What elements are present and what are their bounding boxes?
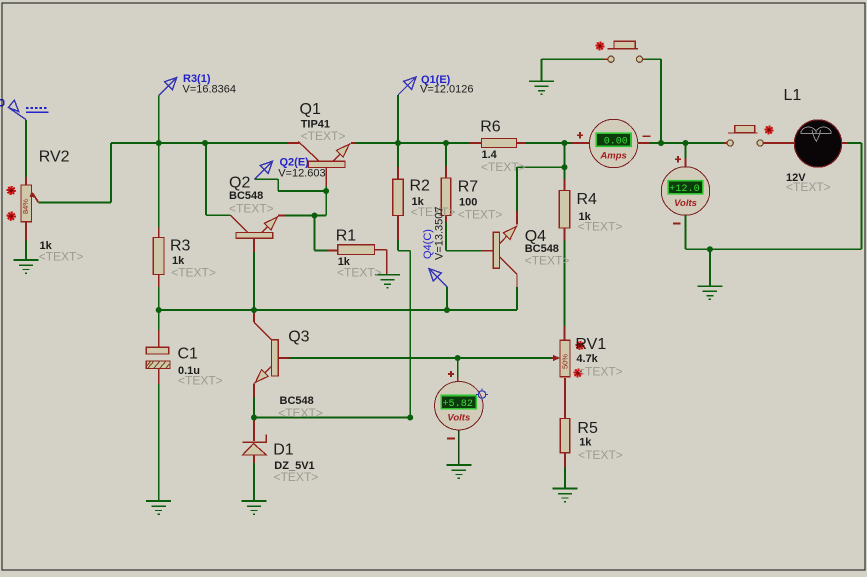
svg-text:Q4(C): Q4(C) xyxy=(422,229,434,259)
svg-text:R4: R4 xyxy=(577,191,598,208)
svg-text:C1: C1 xyxy=(178,346,199,363)
svg-text:<TEXT>: <TEXT> xyxy=(481,160,526,174)
svg-text:+5.82: +5.82 xyxy=(442,399,473,410)
svg-text:<TEXT>: <TEXT> xyxy=(578,448,623,462)
svg-text:Amps: Amps xyxy=(599,150,626,161)
svg-text:Volts: Volts xyxy=(674,198,697,209)
svg-text:RV1: RV1 xyxy=(575,336,606,353)
svg-text:Q2: Q2 xyxy=(229,175,250,192)
svg-text:Volts: Volts xyxy=(447,413,470,424)
svg-text:<TEXT>: <TEXT> xyxy=(274,470,319,484)
svg-text:R1: R1 xyxy=(336,228,357,245)
svg-text:R3: R3 xyxy=(170,238,191,255)
svg-text:<TEXT>: <TEXT> xyxy=(171,266,216,280)
svg-text:+12.0: +12.0 xyxy=(669,184,700,195)
svg-text:V=13.3507: V=13.3507 xyxy=(434,206,446,260)
svg-text:84%: 84% xyxy=(21,199,30,214)
svg-text:<TEXT>: <TEXT> xyxy=(525,254,570,268)
svg-text:<TEXT>: <TEXT> xyxy=(229,202,274,216)
svg-text:<TEXT>: <TEXT> xyxy=(458,208,503,222)
svg-text:RV2: RV2 xyxy=(39,149,70,166)
svg-text:<TEXT>: <TEXT> xyxy=(178,374,223,388)
svg-text:4.7k: 4.7k xyxy=(576,353,598,365)
svg-text:BC548: BC548 xyxy=(280,395,314,407)
svg-text:Q2(E): Q2(E) xyxy=(280,157,310,169)
svg-text:L1: L1 xyxy=(784,87,802,104)
svg-text:R2: R2 xyxy=(410,178,431,195)
svg-text:50%: 50% xyxy=(560,354,569,369)
svg-text:<TEXT>: <TEXT> xyxy=(337,266,382,280)
svg-text:V=12.0126: V=12.0126 xyxy=(420,84,474,96)
svg-text:<TEXT>: <TEXT> xyxy=(278,406,323,420)
svg-text:0.00: 0.00 xyxy=(604,137,628,148)
svg-text:<TEXT>: <TEXT> xyxy=(578,365,623,379)
svg-text:V=12.603: V=12.603 xyxy=(278,168,325,180)
svg-text:R6: R6 xyxy=(480,119,501,136)
svg-text:R5: R5 xyxy=(577,420,598,437)
svg-text:<TEXT>: <TEXT> xyxy=(39,250,84,264)
svg-text:Q1: Q1 xyxy=(300,101,321,118)
svg-text:1k: 1k xyxy=(579,437,592,449)
svg-text:<TEXT>: <TEXT> xyxy=(786,180,831,194)
svg-text:<TEXT>: <TEXT> xyxy=(578,220,623,234)
svg-text:V=16.8364: V=16.8364 xyxy=(183,84,237,96)
svg-text:BC548: BC548 xyxy=(229,190,263,202)
svg-text:<TEXT>: <TEXT> xyxy=(301,129,346,143)
svg-text:D1: D1 xyxy=(273,441,294,458)
svg-text:Q3: Q3 xyxy=(288,329,309,346)
svg-text:R7: R7 xyxy=(458,179,479,196)
